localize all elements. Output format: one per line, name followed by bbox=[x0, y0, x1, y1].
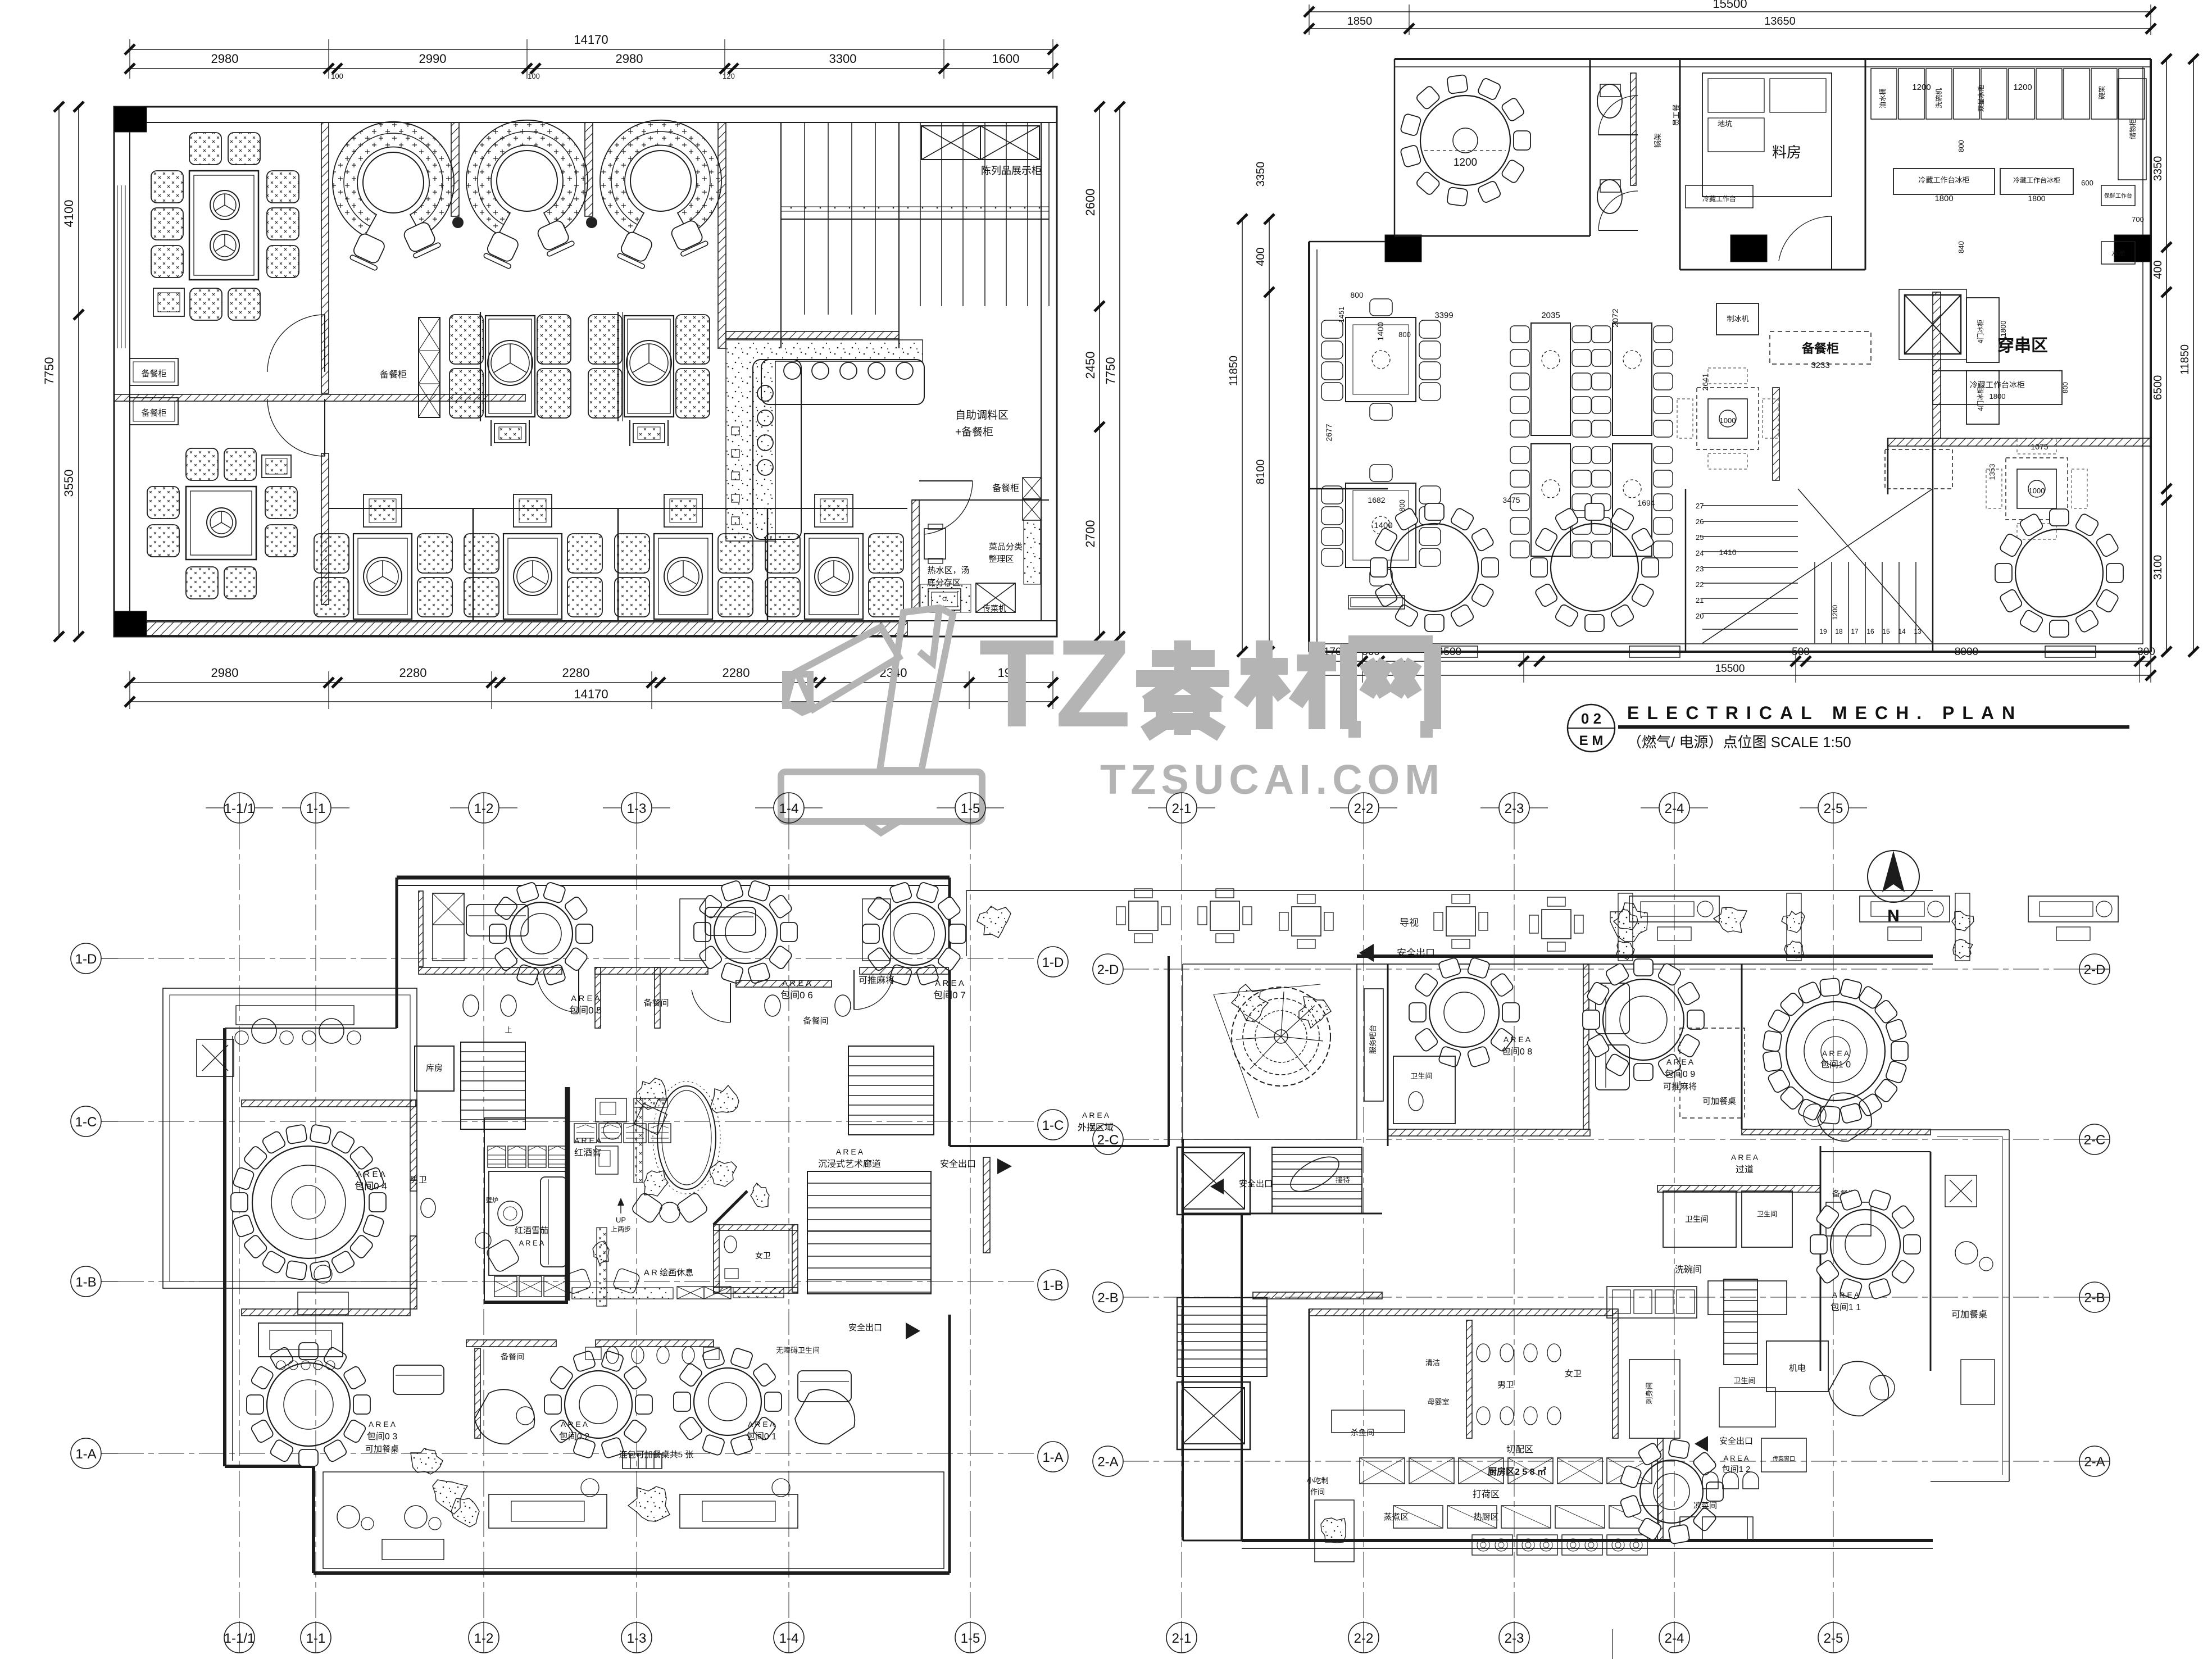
booth dividers bbox=[451, 122, 459, 216]
svg-text:13650: 13650 bbox=[1764, 15, 1796, 28]
toilet fixtures row bbox=[606, 1347, 619, 1363]
svg-text:1075: 1075 bbox=[2031, 442, 2048, 451]
bottom right outline bbox=[1183, 1213, 1242, 1215]
cabinet 备餐柜 lower bbox=[130, 398, 178, 425]
svg-text:1-C: 1-C bbox=[1042, 1118, 1064, 1133]
svg-text:22: 22 bbox=[1696, 580, 1704, 589]
dim top segments bbox=[130, 68, 1053, 69]
svg-text:卫生间: 卫生间 bbox=[1685, 1215, 1709, 1224]
svg-text:2980: 2980 bbox=[616, 52, 643, 66]
display cabinet 陈列品展示柜 bbox=[921, 126, 980, 160]
svg-text:8100: 8100 bbox=[1255, 460, 1267, 485]
dotted L bench bbox=[634, 1098, 643, 1183]
svg-text:1200: 1200 bbox=[1454, 157, 1477, 169]
svg-text:3550: 3550 bbox=[62, 470, 76, 497]
svg-text:25: 25 bbox=[1696, 533, 1704, 542]
terrace furniture bbox=[202, 1045, 228, 1071]
svg-text:服务吧台: 服务吧台 bbox=[1369, 1025, 1377, 1054]
svg-text:800: 800 bbox=[1398, 330, 1411, 339]
svg-text:备餐柜: 备餐柜 bbox=[141, 369, 166, 379]
svg-text:3350: 3350 bbox=[1255, 162, 1267, 187]
kitchen divider hatched walls bbox=[1933, 292, 1941, 438]
svg-text:21: 21 bbox=[1696, 596, 1704, 604]
center long tables bbox=[1531, 323, 1570, 435]
stair lower wall bbox=[726, 331, 899, 339]
svg-text:员工餐: 员工餐 bbox=[1672, 104, 1680, 126]
svg-text:2072: 2072 bbox=[1611, 308, 1620, 327]
svg-text:14170: 14170 bbox=[574, 33, 608, 47]
svg-text:可加餐桌: 可加餐桌 bbox=[365, 1444, 399, 1454]
svg-text:19: 19 bbox=[1819, 628, 1827, 635]
svg-text:23: 23 bbox=[1696, 565, 1704, 573]
svg-text:A R 绘画休息: A R 绘画休息 bbox=[644, 1268, 693, 1278]
svg-text:料房: 料房 bbox=[1772, 144, 1801, 161]
svg-text:+备餐柜: +备餐柜 bbox=[955, 426, 993, 438]
svg-text:锅架: 锅架 bbox=[1654, 133, 1662, 148]
partitions lower rooms bbox=[466, 1340, 556, 1347]
svg-text:2-A: 2-A bbox=[2084, 1455, 2105, 1470]
small grill table bbox=[153, 288, 184, 316]
svg-text:400: 400 bbox=[2152, 260, 2164, 279]
svg-text:上两步: 上两步 bbox=[611, 1225, 631, 1233]
icemaker 制冰机 bbox=[1716, 303, 1759, 335]
svg-text:3475: 3475 bbox=[1502, 496, 1520, 504]
svg-text:1800: 1800 bbox=[2028, 194, 2045, 203]
AR rest bench strip bbox=[597, 1228, 607, 1306]
svg-text:安全出口: 安全出口 bbox=[1719, 1436, 1753, 1446]
arc sofas 包间12 bbox=[1702, 1472, 1718, 1489]
svg-text:母婴室: 母婴室 bbox=[1427, 1398, 1449, 1406]
door arc lower-left room bbox=[324, 399, 325, 456]
svg-text:UP: UP bbox=[616, 1216, 626, 1224]
svg-text:包间0 3: 包间0 3 bbox=[367, 1431, 397, 1442]
desks right terrace bbox=[1629, 896, 1719, 922]
svg-text:打荷区: 打荷区 bbox=[1473, 1489, 1500, 1499]
toilets block bbox=[1679, 59, 1681, 270]
bottom row separators bbox=[473, 508, 474, 621]
cabinet 备餐柜 upper bbox=[130, 358, 178, 385]
svg-text:过道: 过道 bbox=[1736, 1165, 1754, 1175]
svg-text:2035: 2035 bbox=[1541, 311, 1560, 320]
mid building walls bbox=[950, 1145, 1169, 1147]
WCs right bbox=[1657, 1185, 1820, 1192]
svg-text:卫生间: 卫生间 bbox=[1757, 1210, 1777, 1218]
svg-text:800: 800 bbox=[1957, 140, 1965, 152]
dumbwaiter etc bbox=[1761, 1438, 1806, 1472]
svg-text:2-C: 2-C bbox=[2084, 1133, 2106, 1148]
svg-text:外摆区域: 外摆区域 bbox=[1078, 1122, 1114, 1133]
window column left wall bbox=[117, 185, 118, 348]
svg-text:A R E A: A R E A bbox=[1731, 1153, 1759, 1162]
round table 12 chairs upper-left bbox=[1420, 96, 1510, 185]
chairs pair + table bbox=[631, 1192, 664, 1224]
svg-text:2677: 2677 bbox=[1324, 424, 1333, 441]
svg-text:11850: 11850 bbox=[1228, 356, 1240, 386]
left building outer walls bbox=[397, 876, 950, 880]
sofas 08 bbox=[1596, 983, 1629, 1034]
stairs top right bbox=[780, 122, 782, 315]
terrace tables 4-chair bbox=[1129, 901, 1158, 930]
svg-text:16: 16 bbox=[1866, 628, 1874, 635]
big round table 20 chairs bbox=[252, 1146, 365, 1258]
svg-text:冷藏工作台: 冷藏工作台 bbox=[1702, 194, 1736, 203]
svg-text:备餐柜: 备餐柜 bbox=[380, 370, 407, 380]
door arc upper-left room bbox=[324, 315, 325, 372]
room10 walls bbox=[1741, 964, 1743, 1129]
booth 2 bbox=[466, 120, 588, 234]
svg-text:1800: 1800 bbox=[1934, 194, 1953, 203]
svg-text:包间0 4: 包间0 4 bbox=[355, 1181, 387, 1192]
column top-left bbox=[114, 107, 147, 132]
svg-text:7750: 7750 bbox=[42, 357, 56, 385]
condiment small squares bbox=[732, 427, 739, 435]
svg-text:A R E A: A R E A bbox=[935, 979, 964, 988]
courtyard slant lines bbox=[1214, 994, 1259, 1118]
watermark chars 素材网 (custom paths) bbox=[1136, 640, 1433, 735]
booth 3 bbox=[600, 120, 721, 234]
svg-text:备餐柜: 备餐柜 bbox=[1801, 342, 1839, 356]
refrigerated worktables bbox=[1893, 169, 1995, 194]
entry steps bottom bbox=[315, 1572, 348, 1574]
svg-text:包间0 8: 包间0 8 bbox=[1502, 1047, 1532, 1057]
svg-text:A R E A: A R E A bbox=[369, 1420, 396, 1429]
svg-text:传菜机: 传菜机 bbox=[983, 604, 1006, 613]
svg-text:备餐柜: 备餐柜 bbox=[992, 483, 1019, 493]
svg-text:1-D: 1-D bbox=[1042, 955, 1064, 970]
传菜机 bbox=[976, 583, 1015, 612]
svg-text:安全出口: 安全出口 bbox=[940, 1159, 976, 1169]
elevator bbox=[1905, 295, 1961, 354]
sink bbox=[920, 584, 971, 612]
staircase left building bbox=[461, 1042, 525, 1043]
booth area left wall bbox=[321, 122, 329, 393]
svg-text:地坑: 地坑 bbox=[1718, 120, 1732, 128]
svg-text:1200: 1200 bbox=[1912, 83, 1931, 92]
upper-left room: vertical table with 2 hotpots bbox=[189, 171, 258, 280]
top-left plan: hotpot restaurant furniture layout bbox=[42, 33, 1125, 709]
svg-text:27: 27 bbox=[1696, 502, 1704, 510]
bottom rail line bbox=[329, 508, 907, 509]
svg-text:1-A: 1-A bbox=[75, 1447, 96, 1462]
svg-text:4门冰柜: 4门冰柜 bbox=[1976, 387, 1984, 411]
small grill table lower room bbox=[262, 455, 291, 478]
upper terrace boundary bbox=[966, 890, 1933, 891]
terrace plants bbox=[977, 906, 1011, 938]
hatched bottom wall bbox=[130, 622, 907, 635]
svg-text:库房: 库房 bbox=[426, 1063, 443, 1073]
watermark logo "1" bbox=[781, 608, 982, 833]
svg-text:17: 17 bbox=[1851, 628, 1859, 635]
备餐柜 dashed bbox=[1770, 331, 1871, 364]
svg-text:清洁: 清洁 bbox=[1425, 1358, 1440, 1367]
svg-text:ELECTRICAL MECH. PLAN: ELECTRICAL MECH. PLAN bbox=[1627, 703, 2023, 723]
svg-text:冷藏工作台冰柜: 冷藏工作台冰柜 bbox=[1918, 176, 1969, 184]
dim left bbox=[78, 107, 79, 637]
bottom terrace furniture bbox=[489, 1494, 607, 1528]
svg-text:A R E A: A R E A bbox=[1832, 1290, 1860, 1299]
svg-text:1694: 1694 bbox=[1637, 498, 1655, 507]
mid lower table 接待 bbox=[258, 1323, 343, 1357]
svg-text:11850: 11850 bbox=[2179, 344, 2191, 375]
svg-text:2600: 2600 bbox=[1083, 189, 1097, 216]
wine racks along corridor right bbox=[574, 1124, 597, 1143]
svg-text:600: 600 bbox=[2081, 179, 2093, 187]
top room partitions bbox=[419, 967, 562, 974]
svg-text:包间1 1: 包间1 1 bbox=[1831, 1302, 1861, 1312]
right room partitions bbox=[912, 500, 919, 612]
svg-text:切配区: 切配区 bbox=[1506, 1444, 1533, 1455]
svg-text:机电: 机电 bbox=[1789, 1363, 1806, 1373]
svg-text:3300: 3300 bbox=[829, 52, 857, 66]
svg-text:15500: 15500 bbox=[1715, 663, 1745, 675]
svg-text:沉浸式艺术廊道: 沉浸式艺术廊道 bbox=[818, 1159, 881, 1169]
bottom row table groups bbox=[353, 534, 412, 619]
lower-left room: square table + cushions bbox=[186, 487, 256, 560]
bar strip bottom bbox=[572, 1288, 673, 1299]
svg-text:女卫: 女卫 bbox=[1565, 1369, 1582, 1379]
dashed square tables bbox=[1697, 388, 1759, 449]
title block circle 02/EM bbox=[1568, 704, 1615, 752]
L-shaped bar 自助调料区 bbox=[726, 340, 923, 541]
svg-text:储物柜: 储物柜 bbox=[2128, 119, 2137, 139]
svg-text:1-B: 1-B bbox=[75, 1275, 96, 1290]
upper-left room walls bbox=[1589, 59, 1591, 236]
svg-text:2-D: 2-D bbox=[2084, 962, 2106, 978]
包间12 bbox=[1640, 1460, 1703, 1523]
oval pond bbox=[657, 1086, 716, 1189]
svg-text:TZ: TZ bbox=[979, 614, 1131, 753]
包间08 walls bbox=[1387, 964, 1389, 1146]
svg-text:1800: 1800 bbox=[1990, 392, 2006, 401]
svg-text:2280: 2280 bbox=[723, 666, 750, 680]
svg-text:导视: 导视 bbox=[1400, 917, 1419, 928]
right vertical wall bbox=[718, 122, 726, 348]
svg-text:冷藏工作台冰柜: 冷藏工作台冰柜 bbox=[2013, 176, 2060, 184]
courtyard bbox=[1182, 964, 1183, 1139]
column bottom-left bbox=[114, 611, 147, 637]
svg-text:厨房区2 5 8 ㎡: 厨房区2 5 8 ㎡ bbox=[1488, 1466, 1546, 1477]
top-right plan: electrical mech plan bbox=[1228, 0, 2199, 683]
planter columns bbox=[1618, 893, 1633, 961]
svg-text:A R E A: A R E A bbox=[519, 1239, 544, 1247]
stair right wing bbox=[1724, 1279, 1757, 1280]
svg-text:壁炉: 壁炉 bbox=[486, 1196, 498, 1204]
svg-text:整理区: 整理区 bbox=[988, 554, 1014, 564]
svg-text:24: 24 bbox=[1696, 549, 1704, 557]
karaoke chair 11 bbox=[1829, 1361, 1888, 1416]
dim top 14170 bbox=[130, 49, 1053, 50]
svg-text:1000: 1000 bbox=[1720, 416, 1736, 425]
包间08 bbox=[1429, 978, 1499, 1047]
svg-text:1410: 1410 bbox=[1719, 548, 1736, 557]
svg-text:热厨区: 热厨区 bbox=[1473, 1512, 1498, 1522]
svg-text:双星水池: 双星水池 bbox=[1977, 85, 1985, 112]
svg-text:女卫: 女卫 bbox=[755, 1251, 771, 1260]
svg-text:1600: 1600 bbox=[992, 52, 1020, 66]
svg-text:3233: 3233 bbox=[1811, 361, 1829, 370]
svg-text:100: 100 bbox=[528, 72, 540, 80]
room04 walls bbox=[242, 1100, 416, 1107]
karaoke seats lower mid bbox=[475, 1389, 534, 1444]
svg-text:1000: 1000 bbox=[2029, 487, 2045, 495]
svg-text:传菜窗口: 传菜窗口 bbox=[1773, 1455, 1795, 1462]
svg-text:14170: 14170 bbox=[574, 687, 608, 701]
svg-text:包间0 7: 包间0 7 bbox=[933, 990, 966, 1001]
svg-text:1-A: 1-A bbox=[1042, 1450, 1063, 1465]
mid divider walls bbox=[480, 312, 481, 421]
kitchen benches rows bbox=[1360, 1458, 1405, 1484]
corridor stairs mid bbox=[848, 1046, 934, 1047]
bottom round tables bbox=[1391, 524, 1478, 611]
small table right room bbox=[924, 529, 946, 559]
svg-text:2-B: 2-B bbox=[1097, 1290, 1118, 1306]
wine racks top row bbox=[488, 1146, 506, 1167]
svg-text:2280: 2280 bbox=[399, 666, 427, 680]
svg-text:A R E A: A R E A bbox=[748, 1420, 775, 1429]
svg-text:6500: 6500 bbox=[2152, 375, 2164, 401]
booth 1 bbox=[333, 122, 454, 236]
svg-text:800: 800 bbox=[1350, 290, 1364, 299]
svg-text:3350: 3350 bbox=[2152, 156, 2164, 181]
right building top wall bbox=[1357, 955, 1933, 958]
horizontal grid rows left bbox=[118, 958, 1034, 959]
svg-text:洗碗间: 洗碗间 bbox=[1675, 1265, 1702, 1275]
svg-text:TZSUCAI.COM: TZSUCAI.COM bbox=[1100, 756, 1445, 803]
service bar 服务吧台 bbox=[1364, 989, 1383, 1101]
svg-text:1682: 1682 bbox=[1368, 496, 1385, 504]
middle row table groups bbox=[485, 316, 535, 417]
outer walls bbox=[114, 107, 1057, 637]
svg-text:包间0 2: 包间0 2 bbox=[559, 1431, 589, 1442]
svg-text:1451: 1451 bbox=[1337, 307, 1346, 323]
svg-text:安全出口: 安全出口 bbox=[1397, 948, 1435, 958]
svg-text:2450: 2450 bbox=[1083, 352, 1097, 379]
wine cellar bottom racks bbox=[494, 1276, 517, 1297]
svg-text:840: 840 bbox=[1957, 241, 1965, 253]
svg-text:15500: 15500 bbox=[1713, 0, 1747, 11]
svg-text:A R E A: A R E A bbox=[836, 1147, 864, 1156]
svg-text:碗架: 碗架 bbox=[2097, 86, 2106, 99]
svg-text:安全出口: 安全出口 bbox=[848, 1322, 882, 1333]
mid service area walls bbox=[1183, 1213, 1382, 1215]
svg-text:小吃制: 小吃制 bbox=[1306, 1476, 1328, 1485]
svg-text:2980: 2980 bbox=[211, 52, 239, 66]
库房 bbox=[415, 1046, 454, 1091]
right terrace 可加餐桌 bbox=[1931, 1129, 2009, 1130]
svg-text:包间0 1: 包间0 1 bbox=[746, 1431, 776, 1442]
svg-text:A R E A: A R E A bbox=[1724, 1454, 1749, 1462]
cushions upper-left room bbox=[189, 133, 221, 165]
料房 room bbox=[1680, 269, 1865, 271]
svg-text:2700: 2700 bbox=[1083, 520, 1097, 548]
svg-text:7750: 7750 bbox=[1103, 357, 1118, 385]
top rooms: 包间05 06 07 bbox=[510, 902, 573, 965]
svg-text:A R E A: A R E A bbox=[1504, 1035, 1531, 1044]
svg-text:可推麻将: 可推麻将 bbox=[859, 975, 894, 985]
svg-text:陈列品展示柜: 陈列品展示柜 bbox=[981, 165, 1042, 176]
right wing 包间11 bbox=[1820, 1146, 1822, 1371]
svg-text:无障碍卫生间: 无障碍卫生间 bbox=[776, 1346, 820, 1355]
svg-text:冷藏工作台冰柜: 冷藏工作台冰柜 bbox=[1970, 380, 2025, 389]
left rooms divider walls bbox=[114, 394, 525, 401]
svg-text:红酒雪茄: 红酒雪茄 bbox=[515, 1226, 548, 1235]
cabinet column right 备餐柜 bbox=[1023, 478, 1041, 499]
dim top 15500 bbox=[1309, 11, 2151, 12]
cigar room 红酒雪茄 bbox=[489, 1171, 567, 1275]
svg-text:1353: 1353 bbox=[1988, 464, 1996, 480]
svg-text:2990: 2990 bbox=[419, 52, 447, 66]
包间10 big table bbox=[1786, 1002, 1885, 1101]
kitchen walls bbox=[1309, 1309, 1310, 1540]
svg-text:水池: 水池 bbox=[2111, 249, 2125, 257]
svg-text:洗碗机: 洗碗机 bbox=[1934, 88, 1943, 108]
svg-text:14: 14 bbox=[1898, 628, 1906, 635]
second stairs bbox=[1177, 1297, 1267, 1298]
svg-text:2280: 2280 bbox=[562, 666, 590, 680]
left tables with chairs bbox=[1346, 317, 1416, 402]
svg-text:刺身间: 刺身间 bbox=[1645, 1382, 1654, 1404]
svg-text:包间0 6: 包间0 6 bbox=[780, 990, 813, 1001]
svg-text:备餐柜: 备餐柜 bbox=[141, 408, 166, 418]
svg-text:可加餐桌: 可加餐桌 bbox=[1951, 1310, 1987, 1320]
small desks art corridor bbox=[596, 1098, 626, 1122]
north compass bbox=[1868, 851, 1919, 902]
svg-text:接待: 接待 bbox=[1336, 1176, 1350, 1184]
wine cellar 红酒窖 bbox=[565, 1087, 570, 1301]
outer walls bbox=[1395, 58, 2151, 60]
bottom stairs bbox=[1685, 489, 1687, 652]
svg-text:上: 上 bbox=[505, 1026, 512, 1034]
lower mid stairs bbox=[807, 1171, 931, 1294]
备餐柜 cabinet mid bbox=[419, 317, 440, 417]
svg-text:男卫: 男卫 bbox=[1497, 1380, 1514, 1390]
女卫 block bbox=[714, 1225, 798, 1230]
svg-text:4100: 4100 bbox=[62, 200, 76, 228]
svg-text:1-C: 1-C bbox=[75, 1115, 97, 1130]
svg-text:1800: 1800 bbox=[1999, 321, 2007, 337]
svg-text:备餐间: 备餐间 bbox=[501, 1352, 524, 1361]
svg-text:1-D: 1-D bbox=[75, 952, 97, 967]
svg-text:2-D: 2-D bbox=[1097, 962, 1119, 978]
svg-text:穿串区: 穿串区 bbox=[1997, 336, 2048, 355]
svg-text:800: 800 bbox=[2061, 382, 2069, 393]
bottom plan: large restaurant floor plan bbox=[71, 793, 2110, 1653]
svg-text:A R E A: A R E A bbox=[1082, 1111, 1110, 1120]
svg-text:700: 700 bbox=[2132, 215, 2144, 224]
svg-text:A R E A: A R E A bbox=[1822, 1049, 1850, 1058]
lower left room of plan B walls bbox=[1309, 488, 1388, 490]
svg-text:A R E A: A R E A bbox=[356, 1170, 385, 1179]
svg-text:E M: E M bbox=[1579, 733, 1604, 748]
side cabinets top rooms bbox=[433, 893, 464, 961]
svg-text:可加餐桌: 可加餐桌 bbox=[1702, 1097, 1736, 1106]
center block elevators/stairs bbox=[1177, 1147, 1250, 1215]
svg-text:2980: 2980 bbox=[211, 666, 239, 680]
svg-text:0 2: 0 2 bbox=[1581, 710, 1601, 727]
svg-text:1200: 1200 bbox=[1831, 604, 1839, 620]
booth wall lower segment bbox=[321, 453, 329, 604]
机电 bbox=[1766, 1341, 1828, 1392]
svg-text:20: 20 bbox=[1696, 612, 1704, 620]
svg-text:A R E A: A R E A bbox=[561, 1420, 588, 1429]
toilets row under rooms bbox=[463, 995, 479, 1016]
far bottom-right step bbox=[1612, 1629, 1613, 1659]
big tree bbox=[1232, 987, 1330, 1086]
svg-text:（燃气/ 电源）点位图 SCALE 1:50: （燃气/ 电源）点位图 SCALE 1:50 bbox=[1627, 734, 1851, 751]
svg-text:A R E A: A R E A bbox=[574, 1136, 602, 1145]
window door bottom bbox=[1427, 646, 1478, 657]
dim bottom bbox=[130, 682, 1053, 683]
